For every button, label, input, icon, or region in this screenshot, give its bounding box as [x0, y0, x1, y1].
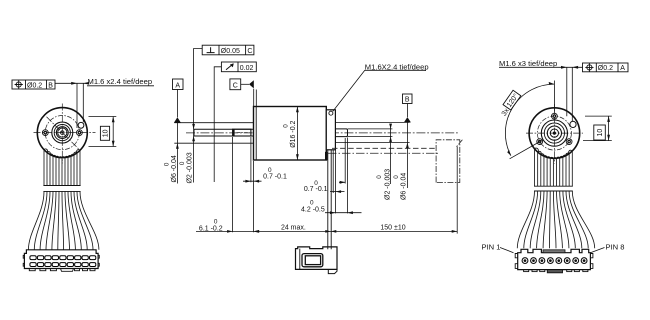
FCF runout 0.02: [221, 62, 256, 72]
right leader arrows: [561, 66, 578, 69]
svg-text:PIN 1: PIN 1: [482, 243, 501, 252]
left connector contact slots: [30, 256, 36, 260]
phantom connector rectangle: [436, 140, 462, 183]
datum B box: [403, 94, 413, 104]
svg-text:M1.6 x2.4 tief/deep: M1.6 x2.4 tief/deep: [88, 77, 153, 86]
right dimension 10 line: [607, 116, 610, 141]
main bottom dimension line: [196, 230, 457, 232]
svg-text:0: 0: [393, 175, 400, 179]
left M1.6 leader line: [55, 82, 87, 84]
left view diagonal centerline: [47, 117, 79, 149]
svg-text:Ø0.2: Ø0.2: [598, 65, 613, 72]
right view bundle break lines: [534, 186, 573, 191]
svg-text:B: B: [48, 82, 53, 89]
right view outer circle: [529, 108, 580, 159]
right view hole lower-right: [566, 139, 572, 145]
left dimension 10 line: [112, 117, 115, 147]
dimension 4.2 -0.5: dim line and arrows: [325, 211, 362, 214]
left connector bottom tabs: [29, 269, 35, 271]
svg-text:Ø0.05: Ø0.05: [221, 48, 240, 55]
right view pilot hole: [570, 121, 576, 127]
right FCF position Ø0.2 A: [583, 63, 629, 72]
dimension 0.7 -0.1 front: dim line and arrows: [243, 180, 262, 183]
svg-text:0.02: 0.02: [240, 65, 254, 72]
svg-text:M1.6 x3 tief/deep: M1.6 x3 tief/deep: [499, 59, 557, 68]
right connector top middle band: [543, 250, 565, 253]
svg-text:A: A: [175, 83, 180, 90]
cable exit blob: [325, 152, 327, 161]
dimension Ø2 left: dim line (also FCF1 leader): [192, 49, 202, 183]
svg-text:Ø2 -0.003: Ø2 -0.003: [385, 169, 392, 200]
Ø6 boss outline lines: [174, 123, 253, 144]
svg-text:Ø0.2: Ø0.2: [27, 82, 42, 89]
dimension Ø16 text: [283, 120, 298, 147]
right connector body: [518, 249, 591, 269]
right view wire bundle upper: [535, 149, 573, 187]
left view shaft circle: [56, 127, 68, 139]
left view wire bundle upper: [44, 150, 80, 186]
120 degree arc with arrows: [505, 82, 554, 156]
shaft collar rectangle: [233, 129, 251, 136]
left label M1.6 x2.4 tief/deep: [87, 77, 154, 86]
svg-text:0: 0: [376, 175, 383, 179]
svg-text:Ø2 -0.003: Ø2 -0.003: [187, 152, 194, 183]
output shaft Ø2 outline: [194, 129, 254, 136]
dimension 150 extension right: [456, 147, 458, 234]
left view hole left (bolt hole): [42, 130, 48, 136]
right view bolt circle: [537, 116, 571, 150]
svg-text:150 ±10: 150 ±10: [380, 224, 405, 231]
dimension 6.1 text: [199, 219, 223, 233]
label M1.6 x3 tief/deep: [499, 59, 558, 68]
dimension 0.7 -0.1 rear text: [304, 180, 328, 193]
left dimension 10 boxed text: [100, 126, 109, 140]
bottom connector left cap line: [299, 249, 301, 270]
svg-text:C: C: [247, 48, 252, 55]
left view hole right (bolt hole): [77, 130, 83, 136]
dimension Ø6 left: dim line: [176, 123, 179, 184]
PIN 1 label: [482, 243, 514, 253]
right view hole top: [552, 113, 558, 119]
right view centerline horizontal: [526, 132, 583, 134]
motor rear flange: [326, 110, 335, 150]
left view centerline horizontal: [34, 132, 96, 134]
dimension Ø2 right: dim line: [389, 124, 392, 184]
svg-text:0: 0: [163, 162, 170, 166]
rear shaft stub Ø2: [335, 129, 347, 137]
dimension 0.7 -0.1 rear: extension lines: [333, 150, 335, 213]
tapped hole in flange: [329, 111, 333, 115]
PIN 8 label: [590, 243, 624, 253]
right dimension 10 boxed text: [594, 125, 606, 140]
svg-text:0: 0: [179, 161, 186, 165]
svg-text:PIN 8: PIN 8: [606, 243, 625, 252]
dimension Ø6 right: dim line: [406, 122, 409, 188]
datum B leader and triangle: [404, 104, 411, 123]
dimension 0.7 -0.1 front: extension lines: [251, 137, 254, 232]
left view bolt circle (dash-dot): [45, 116, 79, 150]
svg-text:24 max.: 24 max.: [281, 224, 306, 231]
datum C leader and triangle on body face: [241, 80, 254, 88]
right view hub circles: [541, 120, 567, 146]
dimension 0.7 -0.1 front text: [263, 167, 287, 181]
rear cable down to connector: [328, 150, 331, 250]
right Ø6 extension lines: [335, 122, 409, 142]
right view hole lower-left: [537, 139, 543, 145]
svg-text:10: 10: [597, 129, 604, 137]
left view centerline vertical: [61, 104, 63, 164]
dimension 4.2 -0.5: extension line at shaft end: [346, 138, 348, 214]
right connector side caps: [515, 254, 593, 269]
extension line through lower-left hole: [510, 141, 542, 159]
motor body: [254, 107, 327, 161]
svg-text:0: 0: [283, 124, 290, 128]
left FCF position Ø0.2 B: [12, 80, 55, 89]
dimension 150 text: [380, 224, 405, 231]
dimension 24 max text: [281, 224, 306, 231]
FCF2 leader vertical: [214, 67, 221, 182]
svg-text:Ø6 -0.04: Ø6 -0.04: [400, 173, 407, 200]
right connector bottom tabs: [524, 270, 529, 272]
left M1.6 extension lines to holes: [77, 83, 83, 128]
right view centerline vertical: [553, 104, 555, 164]
left view wire fan: [28, 191, 99, 249]
svg-text:A: A: [620, 65, 625, 72]
label 3x 120deg rotated box: [498, 90, 521, 117]
dimension Ø16: line and arrows: [296, 107, 299, 161]
bottom connector foot: [328, 269, 337, 273]
svg-text:B: B: [405, 97, 410, 104]
dimension Ø6 right text: [393, 173, 407, 200]
dimension 0.7 -0.1 rear: dim line and arrow: [330, 190, 345, 193]
left view hub circle outer: [52, 122, 73, 143]
dimension Ø6 left text: [163, 155, 178, 182]
dimension Ø2 right text: [376, 169, 391, 200]
left view outer circle (housing): [37, 108, 87, 158]
left dimension 10 extension lines: [89, 117, 117, 147]
cable centerline right (dash-dot): [328, 152, 438, 154]
svg-text:C: C: [233, 83, 238, 90]
middle centerline: [186, 132, 459, 134]
svg-text:10: 10: [102, 129, 109, 137]
right dimension 10 extension lines: [583, 116, 612, 141]
left view shaft chamfer circle: [58, 128, 67, 137]
svg-text:4.2 -0.5: 4.2 -0.5: [301, 207, 325, 214]
right leader extension lines down: [567, 67, 573, 121]
right leader line to FCF: [558, 66, 583, 68]
left view shaft center: [61, 131, 65, 135]
right Ø2 extension lines: [348, 129, 393, 137]
right view wire scalloped edge: [535, 148, 573, 158]
datum A box: [173, 79, 184, 90]
hidden cable to right (dashed): [332, 147, 436, 149]
motor front plate line: [255, 107, 257, 161]
svg-text:6.1 -0.2: 6.1 -0.2: [199, 225, 223, 232]
left view hub circle inner: [54, 125, 70, 141]
dimension 6.1 -0.2: extension line: [232, 137, 234, 232]
svg-text:Ø16 -0.2: Ø16 -0.2: [290, 120, 297, 147]
left view bundle break lines: [43, 186, 80, 192]
svg-text:0.7 -0.1: 0.7 -0.1: [263, 174, 287, 181]
left M1.6 leader arrows: [71, 82, 89, 85]
datum A leader and triangle: [174, 90, 181, 123]
left view wire bundle scalloped edge: [44, 149, 80, 158]
datum C box: [230, 79, 241, 90]
left connector side bumps: [23, 255, 99, 266]
extension line from top hole up: [553, 81, 555, 113]
dimension 24 max arrows: [254, 230, 331, 233]
svg-text:0.7 -0.1: 0.7 -0.1: [304, 186, 328, 193]
bottom connector latch window: [302, 254, 323, 267]
left view tapped hole M1.6: [78, 122, 84, 128]
right view wire fan: [517, 191, 594, 248]
dimension 150 arrows: [331, 230, 457, 233]
FCF perpendicularity Ø0.05 C: [202, 45, 254, 55]
svg-text:Ø6 -0.04: Ø6 -0.04: [171, 155, 178, 182]
dimension 6.1 arrows: [227, 230, 259, 233]
bottom connector (side view) body: [296, 247, 338, 270]
left connector body: [24, 250, 98, 269]
shaft end groove extension lines and arrow: [339, 138, 345, 184]
label M1.6X2.4 tief/deep with leader: [333, 62, 429, 111]
right connector pins: [522, 258, 528, 264]
body face extension lines above body: [254, 89, 257, 107]
dimension 4.2 -0.5 text: [301, 200, 325, 214]
dimension Ø2 left text: [179, 152, 194, 183]
